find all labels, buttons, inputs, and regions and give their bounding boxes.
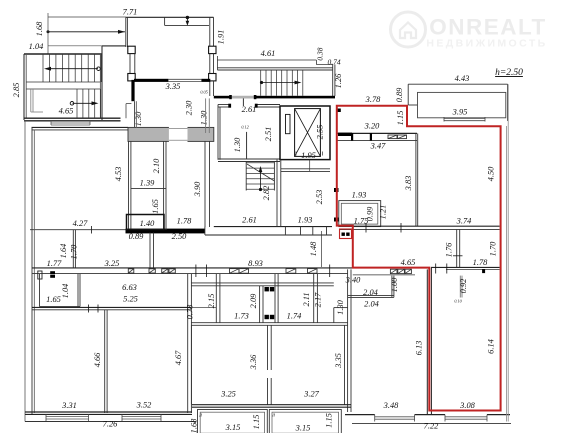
bottom outer line left	[25, 421, 196, 423]
closet 1.00 top line	[353, 274, 415, 276]
closet column right wall	[163, 141, 165, 230]
corridor upper wall thick segment	[126, 229, 206, 234]
loggia right outline	[269, 410, 341, 433]
corridor upper wall right part	[339, 225, 500, 227]
svg-text:1.74: 1.74	[287, 312, 302, 321]
vestibule doorway opening	[169, 126, 188, 142]
svg-text:2.04: 2.04	[364, 300, 379, 309]
svg-text:7.26: 7.26	[103, 420, 118, 429]
wall stub 0.92	[459, 276, 461, 298]
small stair diagonal	[247, 164, 274, 181]
lobby top wall	[218, 104, 229, 106]
room 3.36 left wall	[190, 325, 192, 404]
svg-text:1.95: 1.95	[301, 151, 316, 160]
room 2.53 left wall	[276, 160, 278, 227]
entry stair risers	[260, 70, 262, 96]
living rooms top wall	[32, 306, 191, 308]
svg-text:3.83: 3.83	[404, 176, 413, 192]
window bottom right 1	[375, 416, 415, 418]
stair interior wall stub	[30, 89, 32, 112]
svg-text:6.13: 6.13	[415, 341, 424, 356]
left inner wall	[31, 127, 33, 415]
svg-text:2.11: 2.11	[302, 292, 311, 306]
svg-text:1.21: 1.21	[379, 205, 388, 220]
door jambs in 3.20 wall	[351, 133, 353, 141]
window under stairwell	[51, 122, 90, 124]
closet 1.04/1.65 door jamb rect	[38, 271, 42, 279]
entry right wall	[332, 65, 334, 97]
svg-text:3.31: 3.31	[61, 401, 77, 410]
svg-text:1.78: 1.78	[177, 217, 192, 226]
shaft marks lower	[265, 315, 269, 319]
dimension tick vertical at 7.71 start	[47, 13, 49, 54]
dimension line 7.71 extension	[48, 16, 126, 18]
bathrooms bottom wall	[191, 322, 347, 324]
top center block top wall	[126, 16, 214, 18]
svg-text:1.30: 1.30	[134, 111, 143, 126]
svg-text:0.89: 0.89	[395, 87, 404, 102]
svg-text:7.71: 7.71	[123, 8, 138, 17]
svg-text:3.40: 3.40	[345, 276, 361, 285]
svg-text:1.15: 1.15	[252, 415, 261, 430]
top center block left wall upper	[125, 17, 127, 47]
svg-text:3.90: 3.90	[193, 181, 202, 197]
entry step lines 0.38 0.74	[315, 60, 317, 65]
window under balcony	[444, 117, 485, 119]
vestibule left wall lower	[134, 101, 136, 127]
svg-text:1.70: 1.70	[70, 244, 79, 259]
svg-text:2.30: 2.30	[185, 100, 194, 115]
svg-text:3.74: 3.74	[456, 217, 472, 226]
svg-text:1.65: 1.65	[151, 199, 160, 214]
apartment divider wall 6.13/6.14	[426, 269, 428, 414]
svg-text:1.93: 1.93	[352, 191, 367, 200]
window bottom right 2	[445, 416, 487, 418]
svg-text:0.92: 0.92	[459, 279, 468, 294]
svg-text:2.15: 2.15	[207, 294, 216, 309]
big room top wall	[32, 126, 129, 128]
elevator shaft outer	[280, 106, 330, 160]
svg-text:4.53: 4.53	[114, 167, 123, 182]
svg-text:1.15: 1.15	[325, 413, 334, 428]
small stair risers	[246, 162, 274, 164]
lobby door jambs	[228, 104, 231, 108]
rooms 3.36/3.35 bottom wall	[192, 404, 351, 406]
svg-text:4.66: 4.66	[93, 352, 102, 367]
svg-text:4.61: 4.61	[261, 49, 276, 58]
svg-text:1.76: 1.76	[445, 242, 454, 257]
wall between 1.64 and 1.70	[72, 230, 74, 268]
wall stub left of block	[102, 45, 126, 47]
entry door opening	[231, 95, 255, 99]
door jambs on red wall	[334, 188, 339, 192]
stair direction arrow upper	[46, 68, 98, 70]
dim line 1.48 vertical	[321, 231, 323, 267]
svg-text:4.27: 4.27	[73, 219, 88, 228]
svg-text:5.25: 5.25	[123, 295, 138, 304]
small stair box	[245, 162, 247, 191]
svg-text:1.40: 1.40	[140, 219, 155, 228]
svg-text:1.48: 1.48	[309, 241, 318, 256]
closet 1.04 walls	[39, 274, 41, 307]
svg-text:0.74: 0.74	[327, 58, 340, 67]
corridor upper wall left part	[214, 226, 332, 228]
vestibule thick wall band	[128, 127, 214, 141]
closet 1.40 heavy walls	[127, 215, 165, 230]
svg-text:2.04: 2.04	[363, 288, 378, 297]
svg-text:3.36: 3.36	[249, 354, 258, 370]
svg-text:1.78: 1.78	[473, 258, 488, 267]
partition between 3.36 and 3.35	[267, 325, 269, 370]
top center block left wall lower	[129, 54, 131, 74]
svg-text:2.55: 2.55	[316, 125, 325, 140]
door symbols on corridor wall	[128, 269, 134, 273]
svg-text:1.04: 1.04	[29, 42, 44, 51]
svg-text:1.30: 1.30	[233, 137, 242, 152]
svg-text:1.65: 1.65	[46, 295, 61, 304]
dim line 4.27	[30, 229, 126, 231]
entry stair arrow	[262, 82, 300, 84]
svg-text:3.95: 3.95	[452, 108, 468, 117]
svg-text:3.78: 3.78	[365, 95, 381, 104]
ticks on corridor upper wall	[365, 223, 367, 233]
stairwell block outer walls	[24, 53, 102, 55]
svg-text:4.43: 4.43	[455, 74, 470, 83]
wall between 0.89 and 2.50	[149, 233, 151, 268]
svg-text:НЕДВИЖИМОСТЬ: НЕДВИЖИМОСТЬ	[426, 38, 547, 50]
svg-text:3.15: 3.15	[225, 423, 241, 432]
svg-text:1.93: 1.93	[298, 216, 313, 225]
lobby partition 1.30	[246, 132, 248, 159]
closet column left wall	[128, 141, 130, 230]
right outer wall	[505, 126, 507, 422]
window bottom left 2	[122, 416, 161, 418]
stair direction arrow lower	[73, 102, 97, 104]
left outer wall thin	[24, 121, 26, 422]
top center block notch line	[165, 24, 209, 26]
bathroom1 left wall	[215, 274, 217, 323]
jog near stair room	[126, 103, 131, 105]
svg-text:2.61: 2.61	[242, 105, 257, 114]
vestibule left wall black bar	[131, 80, 134, 101]
bottom wall right segments	[345, 414, 375, 416]
svg-text:3.52: 3.52	[136, 401, 152, 410]
window in 3.35 wall	[168, 78, 201, 80]
svg-text:1.91: 1.91	[217, 30, 226, 45]
svg-text:8.93: 8.93	[248, 259, 263, 268]
loggia left outline	[198, 410, 268, 433]
svg-text:2.50: 2.50	[172, 232, 187, 241]
svg-text:2.10: 2.10	[152, 158, 161, 173]
svg-text:3.08: 3.08	[459, 401, 475, 410]
svg-text:1.70: 1.70	[489, 241, 498, 256]
niche line 0.78	[191, 307, 216, 309]
stair landing lines	[26, 81, 100, 83]
bottom wall left	[25, 411, 192, 413]
corridor upper wall jambs	[284, 227, 286, 235]
room 3.35 right wall	[344, 325, 346, 404]
dimension line 4.61	[217, 59, 316, 61]
lobby left wall	[217, 105, 219, 160]
stair lower flight risers	[76, 89, 78, 118]
svg-text:3.20: 3.20	[364, 122, 380, 131]
dimension line 7.71 arrow line	[48, 31, 125, 33]
svg-text:h=2.50: h=2.50	[495, 68, 523, 78]
stair upper flight risers	[42, 54, 44, 82]
svg-text:3.35: 3.35	[334, 353, 343, 369]
ticks on corridor lower wall	[195, 265, 197, 278]
gray wall stub above lobby	[205, 98, 207, 133]
svg-text:0.38: 0.38	[316, 47, 325, 60]
dim line 1.95 vertical	[309, 160, 311, 172]
svg-text:3.15: 3.15	[295, 424, 311, 433]
svg-text:1.30: 1.30	[336, 299, 345, 314]
bathroom2 left wall	[274, 274, 276, 323]
svg-text:0.78: 0.78	[186, 304, 195, 319]
window bottom left 1	[46, 416, 89, 418]
svg-text:6.63: 6.63	[122, 283, 137, 292]
corridor lower wall bottom line	[32, 273, 348, 275]
svg-text:1.26: 1.26	[334, 73, 343, 88]
svg-text:3.25: 3.25	[220, 390, 236, 399]
svg-text:1.15: 1.15	[396, 111, 405, 126]
svg-text:1.39: 1.39	[140, 179, 155, 188]
svg-text:4.50: 4.50	[487, 166, 496, 181]
svg-text:3.25: 3.25	[104, 259, 120, 268]
svg-text:ONREALT: ONREALT	[429, 15, 547, 40]
entry bottom thick wall	[214, 96, 335, 99]
svg-text:1.77: 1.77	[47, 259, 62, 268]
bathroom1 right wall	[259, 286, 261, 323]
svg-text:0.10: 0.10	[454, 299, 462, 304]
thick wall 3.35 left segment	[134, 79, 168, 82]
svg-text:2.17: 2.17	[314, 292, 323, 307]
svg-text:3.27: 3.27	[303, 390, 319, 399]
vent symbols	[50, 271, 55, 274]
door jamb at red corner top	[337, 109, 341, 113]
closet partition 1.39/1.40	[131, 188, 166, 190]
watermark house icon	[400, 23, 416, 39]
bathrooms top wall	[191, 282, 333, 284]
svg-text:л: л	[271, 413, 275, 419]
wall band 3.20	[337, 132, 417, 134]
small stair arrow	[260, 168, 262, 189]
svg-text:1.73: 1.73	[234, 312, 249, 321]
svg-text:л: л	[198, 413, 202, 419]
closet 1.00x2.04 walls	[391, 276, 393, 298]
column marker square left lower	[128, 74, 135, 81]
bottom outer line right	[352, 423, 511, 425]
svg-text:3.35: 3.35	[165, 82, 181, 91]
svg-text:6.14: 6.14	[487, 339, 496, 354]
svg-text:0.89: 0.89	[129, 232, 144, 241]
svg-text:1.30: 1.30	[200, 110, 209, 125]
balcony outer outline	[408, 83, 507, 85]
svg-text:3.48: 3.48	[383, 401, 399, 410]
wall between rooms 4.66 and 4.67	[104, 310, 106, 413]
elevator door	[286, 114, 291, 133]
red apartment outline	[337, 106, 501, 411]
svg-text:1.68: 1.68	[35, 21, 44, 36]
entry top wall	[217, 67, 333, 69]
svg-text:2.09: 2.09	[249, 293, 258, 308]
svg-text:2.85: 2.85	[12, 83, 21, 98]
red niche small	[340, 229, 352, 239]
svg-text:1.00: 1.00	[390, 277, 399, 292]
wall vertical 1.76	[456, 229, 458, 267]
notch marker circle and arrow	[186, 16, 189, 19]
svg-text:2.51: 2.51	[264, 127, 273, 142]
watermark onrealt logo circle	[391, 12, 426, 47]
window symbols in 3.20 wall	[388, 135, 397, 139]
svg-text:2.82: 2.82	[262, 186, 271, 201]
corridor lower wall right segment	[431, 266, 500, 268]
nook 1.30 walls	[334, 307, 348, 309]
wall 3.83 vertical	[415, 133, 417, 226]
svg-text:1.04: 1.04	[61, 284, 70, 299]
svg-text:1.64: 1.64	[59, 244, 68, 259]
column marker square left upper	[128, 46, 135, 53]
door jamb black right corridor	[482, 269, 485, 273]
room 2.53 top wall	[281, 168, 330, 170]
svg-text:3.47: 3.47	[370, 142, 386, 151]
top center block right wall	[209, 17, 211, 46]
svg-text:7.22: 7.22	[424, 422, 439, 431]
svg-text:0.12: 0.12	[241, 125, 248, 130]
corridor lower wall top line	[32, 267, 352, 269]
column marker square right upper	[209, 46, 216, 53]
svg-text:4.67: 4.67	[174, 350, 183, 365]
elevator car with cross	[295, 109, 321, 157]
svg-text:4.65: 4.65	[59, 107, 74, 116]
bathroom2 right wall	[313, 274, 315, 323]
room 1.78 right wall	[204, 141, 206, 227]
balcony inner railing	[418, 92, 506, 117]
column marker square right lower	[209, 74, 216, 81]
svg-text:2.61: 2.61	[242, 216, 257, 225]
right wall of room 4.67	[187, 274, 189, 413]
thick wall 3.35 right segment	[201, 79, 210, 82]
lobby bottom wall	[218, 158, 280, 160]
svg-text:0.05: 0.05	[200, 90, 207, 95]
stairwell bottom wall	[24, 117, 121, 119]
shaft marks upper	[265, 287, 269, 291]
svg-text:4.65: 4.65	[401, 258, 416, 267]
closet 1.93 walls	[339, 201, 381, 227]
entry door jamb line	[242, 98, 244, 106]
svg-text:2.53: 2.53	[315, 190, 324, 205]
